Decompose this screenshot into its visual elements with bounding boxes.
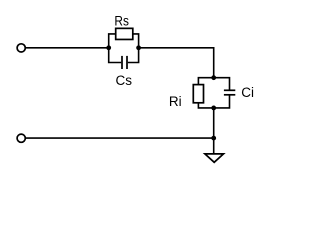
capacitor Cs right plate [126, 56, 128, 69]
svg-text:Ci: Ci [241, 85, 254, 100]
svg-text:Rs: Rs [114, 13, 129, 29]
terminal T2 (bottom-left) [17, 134, 25, 142]
wire node B to top-right corner and down to node C [139, 48, 214, 78]
wire T2 to node E (bottom rail) [26, 137, 214, 139]
node A (left junction of Rs/Cs) [106, 45, 111, 50]
svg-text:Ri: Ri [169, 94, 182, 109]
capacitor Cs left plate [121, 56, 123, 69]
wire node C right-branch to capacitor Ci [214, 78, 230, 91]
capacitor Ci top plate [224, 89, 235, 91]
wire node C left-branch to resistor Ri [198, 78, 213, 85]
wire resistor Rs to node B [133, 34, 139, 48]
wire T1 to node A [26, 47, 109, 49]
wire node D down to node E on bottom rail [213, 108, 215, 138]
wire node E to ground [213, 138, 215, 154]
wire resistor Ri to node D [198, 103, 213, 108]
node C (top junction of Ri/Ci) [211, 75, 216, 80]
ground [205, 154, 224, 162]
capacitor Ci bottom plate [224, 94, 235, 96]
wire capacitor Ci to node D [214, 95, 230, 108]
wire node A up-branch to resistor Rs [109, 34, 116, 48]
terminal T1 (top-left input) [17, 44, 25, 52]
wire capacitor Cs to node B [128, 48, 139, 63]
wire node A down-branch to capacitor Cs [109, 48, 122, 63]
resistor Ri [193, 85, 203, 103]
node E (bottom rail junction) [211, 136, 216, 141]
svg-text:Cs: Cs [116, 73, 133, 88]
node D (bottom junction of Ri/Ci) [211, 106, 216, 111]
node B (right junction of Rs/Cs) [136, 45, 141, 50]
resistor Rs [116, 28, 133, 39]
